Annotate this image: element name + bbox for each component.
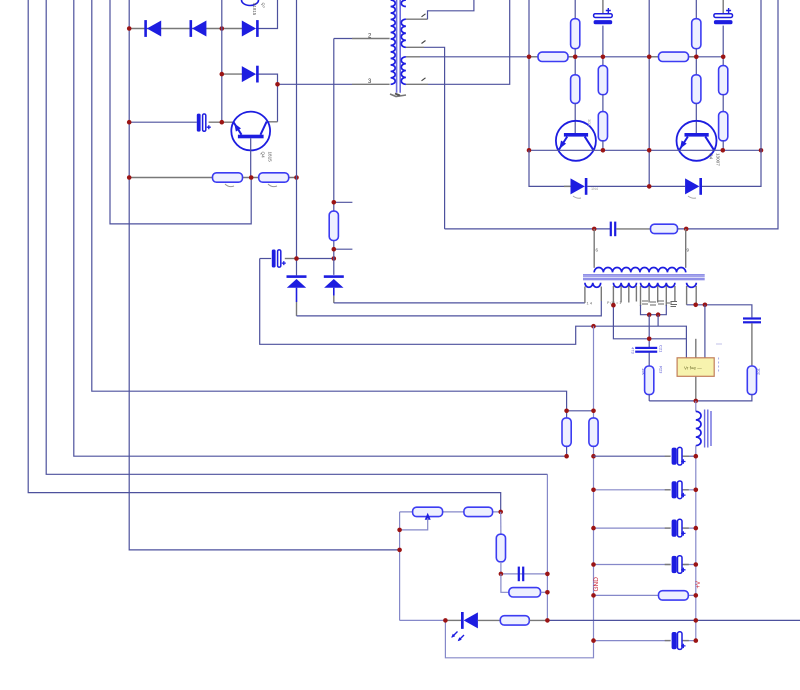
wire <box>722 141 724 151</box>
node <box>703 303 708 308</box>
diode D1 <box>144 20 147 37</box>
node <box>332 247 337 252</box>
wire <box>702 0 761 186</box>
wire <box>722 26 724 57</box>
wire <box>594 594 696 596</box>
svg-text:R23: R23 <box>659 366 664 374</box>
node <box>127 26 132 31</box>
inductor L1 <box>696 411 701 445</box>
node <box>647 55 652 60</box>
resistor R24 <box>747 366 756 395</box>
wire <box>297 301 602 316</box>
node <box>545 618 550 623</box>
node <box>601 148 606 153</box>
wire <box>129 0 399 550</box>
node <box>721 55 726 60</box>
diode D8 <box>324 275 344 278</box>
capacitor C27 <box>670 631 684 650</box>
wire <box>129 121 197 123</box>
wire <box>445 228 610 230</box>
capacitor C26 <box>670 555 684 574</box>
resistor R12 <box>719 112 728 141</box>
wire pin7 of T1 <box>406 56 420 58</box>
wire <box>695 0 697 19</box>
wire +V rail <box>695 446 697 641</box>
resistor R16 <box>589 418 598 446</box>
wire <box>574 49 576 75</box>
node <box>127 120 132 125</box>
wire <box>657 286 659 303</box>
transformer T2 secondary winding S1 <box>585 283 601 288</box>
wire <box>528 0 530 150</box>
diode D6 <box>685 178 699 194</box>
wire <box>649 185 685 187</box>
wire <box>333 296 335 303</box>
wire <box>602 95 604 112</box>
wire <box>722 95 724 112</box>
node <box>591 562 596 567</box>
wire <box>547 619 800 621</box>
potentiometer wiper <box>425 513 431 520</box>
transformer T2 secondary winding S3 <box>641 283 675 288</box>
node <box>694 562 699 567</box>
wire <box>28 0 501 512</box>
resistor R5 <box>571 75 580 104</box>
resistor R21 <box>500 616 529 625</box>
wire <box>74 0 567 456</box>
node <box>249 175 254 180</box>
wire <box>674 286 676 302</box>
resistor R17 <box>659 591 689 600</box>
node <box>721 148 726 153</box>
capacitor C polarized <box>197 114 201 132</box>
transformer T1 primary winding <box>391 0 396 84</box>
wire <box>678 0 779 229</box>
wire <box>529 150 571 186</box>
wire <box>285 258 297 260</box>
wire primary leg <box>593 229 595 268</box>
potentiometer RV1 <box>413 507 443 516</box>
LED arrows <box>452 632 464 641</box>
wire <box>296 288 298 302</box>
svg-text:GND: GND <box>593 577 600 592</box>
node <box>591 454 596 459</box>
wire <box>529 56 538 58</box>
capacitor C25 <box>670 519 684 538</box>
wire <box>500 512 502 534</box>
wire <box>541 591 548 593</box>
wire <box>641 305 667 315</box>
wire <box>110 0 251 224</box>
wire <box>695 339 697 358</box>
transistor Q4 <box>231 112 270 151</box>
transistor Q2 <box>677 121 717 161</box>
node <box>220 120 225 125</box>
wire <box>129 28 243 30</box>
capacitor C electrolytic <box>714 14 733 18</box>
transformer T2 secondary winding S4 <box>687 283 697 288</box>
wire <box>428 0 510 84</box>
wire <box>501 573 548 575</box>
wire <box>649 395 752 401</box>
node <box>397 548 402 553</box>
wire <box>594 489 696 491</box>
wire <box>333 39 335 275</box>
node <box>443 618 448 623</box>
resistor R15 <box>562 418 571 446</box>
node <box>656 312 661 317</box>
label pin ticks <box>422 14 426 81</box>
wire <box>399 512 401 621</box>
resistor R11 <box>719 66 728 95</box>
node <box>332 200 337 205</box>
svg-text:S1815: S1815 <box>252 3 257 16</box>
capacitor C polarized <box>272 250 276 268</box>
capacitor C22 <box>743 317 761 319</box>
node <box>591 526 596 531</box>
wire base of Q2 <box>695 103 697 133</box>
resistor R20 <box>509 588 541 597</box>
resistor R9 <box>692 19 701 49</box>
wire <box>584 287 586 303</box>
wire tap S2 <box>612 286 614 305</box>
wire <box>594 640 696 642</box>
wire pin4 of T1 <box>406 18 428 20</box>
wire <box>424 47 445 229</box>
wire <box>500 562 502 574</box>
capacitor C23 <box>670 447 684 466</box>
wire <box>648 0 650 186</box>
label <box>390 94 406 97</box>
transformer T1 secondary winding B <box>401 19 406 47</box>
wire <box>400 511 501 513</box>
inductor L1 core <box>705 410 711 448</box>
svg-text:1815: 1815 <box>268 152 273 163</box>
wire <box>695 49 697 75</box>
svg-text:Vr f≡e —: Vr f≡e — <box>684 366 702 371</box>
node <box>527 148 532 153</box>
node <box>332 256 337 261</box>
wire <box>751 323 753 366</box>
svg-text:1N4: 1N4 <box>591 187 598 191</box>
node <box>647 312 652 317</box>
wire <box>546 474 548 620</box>
wire <box>657 315 659 327</box>
transformer T2 core <box>583 275 705 280</box>
resistor R1 <box>213 173 243 182</box>
resistor R13 <box>659 52 689 61</box>
capacitor C28 <box>518 567 520 582</box>
wire <box>334 302 585 304</box>
wire <box>297 258 334 260</box>
wire <box>635 286 637 302</box>
wire pin3 of T1 <box>278 83 353 85</box>
wire <box>686 286 688 305</box>
wire <box>400 518 428 530</box>
transistor Q1 <box>556 121 596 161</box>
node <box>527 55 532 60</box>
node <box>294 256 299 261</box>
node <box>591 638 596 643</box>
svg-text:Q?: Q? <box>261 3 266 9</box>
node <box>694 593 699 598</box>
node <box>294 175 299 180</box>
node <box>759 148 764 153</box>
node <box>564 409 569 414</box>
svg-text:3D1: 3D1 <box>587 119 592 127</box>
wire stub <box>334 201 353 203</box>
resistor R14 <box>651 224 678 233</box>
node <box>591 324 596 329</box>
svg-text:Q4: Q4 <box>709 153 714 160</box>
node <box>220 72 225 77</box>
wire stub <box>334 248 353 250</box>
label Q3 cropped <box>242 0 259 6</box>
wire <box>704 305 706 358</box>
wire <box>256 74 278 122</box>
node <box>545 572 550 577</box>
wire <box>648 353 650 367</box>
wire <box>478 619 500 621</box>
node <box>573 55 578 60</box>
wire <box>602 0 604 14</box>
node <box>397 528 402 533</box>
wire <box>594 564 696 566</box>
wire resistor row <box>129 177 296 179</box>
node <box>591 409 596 414</box>
wire <box>628 286 630 303</box>
wire <box>616 228 652 230</box>
resistor R4 <box>571 19 580 49</box>
node <box>694 454 699 459</box>
wire <box>221 0 223 122</box>
node <box>694 618 699 623</box>
wire <box>222 73 243 75</box>
wire <box>620 286 622 303</box>
wire <box>687 305 752 318</box>
wire <box>594 527 696 529</box>
node <box>694 526 699 531</box>
wire <box>587 185 649 187</box>
wire <box>648 395 650 401</box>
wire <box>665 286 667 306</box>
node <box>601 55 606 60</box>
node <box>647 184 652 189</box>
wire base of Q1 <box>574 103 576 133</box>
node <box>694 55 699 60</box>
label smudge <box>225 184 277 187</box>
resistor R23 <box>645 366 654 395</box>
node <box>498 510 503 515</box>
node <box>694 399 699 404</box>
wire <box>600 287 602 302</box>
resistor R8 <box>538 52 568 61</box>
wire bracket S3 <box>640 286 642 306</box>
wire pin2 of T1 <box>334 38 352 40</box>
svg-text:473: 473 <box>631 347 636 354</box>
svg-text:102: 102 <box>757 368 762 375</box>
label smudge <box>642 301 677 307</box>
wire <box>695 286 697 305</box>
wire <box>602 57 604 66</box>
svg-text:13007: 13007 <box>716 153 721 166</box>
diode D4 <box>242 66 256 82</box>
wire GND rail <box>445 326 593 658</box>
resistor R18 <box>464 507 493 516</box>
wire <box>648 286 650 303</box>
node <box>220 26 225 31</box>
wire <box>501 574 509 592</box>
node <box>591 488 596 493</box>
wire <box>602 26 604 57</box>
wire <box>352 38 390 40</box>
diode D2 <box>190 20 193 37</box>
svg-text:+V: +V <box>696 581 702 589</box>
transformer T1 secondary winding A <box>401 0 406 7</box>
wire pin6 of T1 <box>406 83 428 85</box>
node <box>591 593 596 598</box>
wire <box>352 83 390 85</box>
transformer T1 core <box>397 0 401 93</box>
wire <box>260 258 272 260</box>
resistor R3 <box>329 211 338 240</box>
wire <box>722 57 724 66</box>
IC U1 reference <box>677 358 714 377</box>
wire <box>594 455 696 457</box>
LED D9 <box>461 612 464 629</box>
wire <box>695 401 697 412</box>
resistor R6 <box>598 66 607 95</box>
wire <box>92 0 567 456</box>
wire <box>428 0 474 19</box>
wire <box>420 56 723 58</box>
node <box>275 82 280 87</box>
label ghost <box>718 358 720 372</box>
node <box>611 303 616 308</box>
wire <box>529 149 761 151</box>
wire pin5 of T1 <box>406 46 424 48</box>
node <box>694 638 699 643</box>
transformer T1 secondary winding C <box>401 57 406 85</box>
wire <box>296 302 298 316</box>
wire <box>649 56 658 58</box>
wire <box>689 56 697 58</box>
node <box>647 148 652 153</box>
svg-text:C21: C21 <box>659 345 664 353</box>
wire <box>400 619 447 621</box>
node <box>592 227 597 232</box>
diode D7 <box>287 275 307 278</box>
capacitor C24 <box>670 480 684 499</box>
wire <box>568 56 575 58</box>
resistor R19 <box>496 534 505 562</box>
node <box>564 454 569 459</box>
wire <box>613 305 686 339</box>
capacitor C21 <box>635 347 657 349</box>
capacitor C snubber <box>610 222 612 237</box>
resistor R10 <box>692 75 701 104</box>
wire <box>447 619 462 621</box>
diode D5 <box>571 178 585 194</box>
svg-text:Q4: Q4 <box>261 152 266 159</box>
wire <box>722 0 724 14</box>
wire <box>256 0 278 29</box>
wire <box>574 0 576 19</box>
wire <box>209 121 234 123</box>
wire <box>567 410 594 412</box>
wire <box>564 185 571 187</box>
svg-text:1 4: 1 4 <box>587 301 593 306</box>
transformer T2 secondary winding S2 <box>613 283 636 288</box>
node <box>499 572 504 577</box>
wire base of Q4 <box>250 138 252 177</box>
node <box>545 590 550 595</box>
wire <box>529 619 547 621</box>
resistor R7 <box>598 112 607 141</box>
node <box>647 337 652 342</box>
transformer T2 primary winding <box>594 267 686 272</box>
label smudge <box>573 196 696 198</box>
wire C21 branch <box>648 315 650 347</box>
diode D3 <box>242 21 256 37</box>
node <box>694 488 699 493</box>
wire <box>333 288 335 296</box>
node <box>127 175 132 180</box>
wire long run to opto <box>260 259 687 358</box>
wire <box>602 141 604 151</box>
resistor R2 <box>259 173 289 182</box>
node <box>684 227 689 232</box>
svg-text:15K: 15K <box>641 368 646 375</box>
wire <box>695 376 697 401</box>
wire <box>46 0 547 474</box>
capacitor C electrolytic <box>594 14 613 18</box>
node <box>693 303 698 308</box>
wire primary leg <box>685 229 687 268</box>
wire <box>296 0 298 275</box>
wire <box>266 121 277 123</box>
